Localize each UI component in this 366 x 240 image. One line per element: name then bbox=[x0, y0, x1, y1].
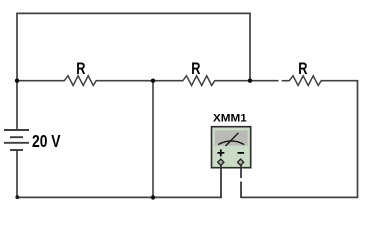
svg-text:R: R bbox=[298, 60, 307, 78]
wire multimeter plus terminal to bottom rail bbox=[220, 165, 222, 199]
svg-text:XMM1: XMM1 bbox=[213, 112, 247, 124]
multimeter terminal minus (diamond) bbox=[237, 159, 243, 165]
battery V1 plates bbox=[4, 129, 29, 131]
wire bottom rail right bbox=[241, 196, 358, 198]
wire node C toward R3 (broken segment) bbox=[249, 80, 278, 82]
multimeter needle bbox=[226, 133, 239, 146]
wire middle vertical node B to bottom rail bbox=[152, 80, 154, 198]
svg-text:R: R bbox=[191, 60, 200, 78]
wire node B to resistor R2 bbox=[152, 80, 183, 82]
multimeter scale arc bbox=[218, 141, 244, 145]
multimeter plus sign bbox=[217, 149, 224, 156]
wire multimeter minus terminal to bottom rail (broken) bbox=[240, 165, 242, 179]
wire top-right vertical bbox=[249, 13, 251, 81]
multimeter terminal plus (diamond) bbox=[218, 159, 224, 165]
junction node A bbox=[15, 79, 19, 83]
resistor R3 bbox=[289, 76, 321, 86]
wire R3 to top-right corner bbox=[321, 80, 358, 82]
resistor R1 bbox=[64, 76, 96, 86]
svg-text:R: R bbox=[76, 60, 85, 78]
multimeter minus sign bbox=[238, 152, 245, 154]
wire top rail bbox=[16, 12, 250, 14]
multimeter XMM1 body bbox=[212, 127, 251, 168]
wire R2 to node C bbox=[214, 80, 250, 82]
wire R1 to node B bbox=[96, 80, 154, 82]
resistor R2 bbox=[183, 76, 215, 86]
junction node B bbox=[151, 79, 155, 83]
junction node C bbox=[248, 79, 252, 83]
corner dot bottom-left bbox=[15, 195, 19, 199]
wire bottom rail left bbox=[16, 196, 222, 198]
junction node B bottom bbox=[151, 195, 155, 199]
wire left vertical upper (top rail to battery) bbox=[16, 13, 18, 130]
wire left vertical lower (battery to bottom rail) bbox=[16, 150, 18, 198]
svg-text:20 V: 20 V bbox=[32, 131, 61, 151]
wire right vertical bbox=[357, 80, 359, 198]
wire node A to resistor R1 bbox=[16, 80, 65, 82]
multimeter display bbox=[215, 130, 248, 145]
